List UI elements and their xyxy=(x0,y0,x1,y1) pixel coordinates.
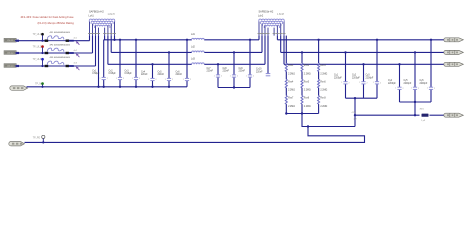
svg-text:Rxx1: Rxx1 xyxy=(288,65,294,67)
svg-text:Cy5: Cy5 xyxy=(404,80,409,82)
wire PE line (y115) xyxy=(354,114,420,116)
svg-text:Rxx5: Rxx5 xyxy=(304,81,310,83)
svg-text:2: 2 xyxy=(403,88,404,90)
resistor column 3 (R7-R9) xyxy=(318,40,328,114)
capacitor stub at choke2 N pin xyxy=(256,36,270,76)
net flag 4x1 xyxy=(74,38,80,45)
svg-text:Cx6: Cx6 xyxy=(176,71,181,73)
svg-text:Cx7: Cx7 xyxy=(207,68,212,70)
wire L1 input xyxy=(15,40,46,42)
svg-text:2.2MΩ: 2.2MΩ xyxy=(304,73,311,75)
svg-text:1: 1 xyxy=(230,75,231,77)
svg-text:2: 2 xyxy=(139,78,140,80)
svg-text:(F1-F3) 4Amps 250Vac Rating: (F1-F3) 4Amps 250Vac Rating xyxy=(38,21,75,25)
svg-text:1: 1 xyxy=(411,88,412,90)
wire L2 up into choke1 xyxy=(92,36,94,53)
connector CN L2 output xyxy=(444,50,464,54)
svg-text:1: 1 xyxy=(148,79,149,81)
svg-text:1: 1 xyxy=(341,82,342,84)
capacitor Cy6 2200pF xyxy=(420,39,436,102)
svg-text:TP_UL3: TP_UL3 xyxy=(33,59,42,61)
svg-text:Rxx4: Rxx4 xyxy=(288,81,294,83)
capacitor Cx3 0.68uF xyxy=(125,39,141,88)
svg-text:1: 1 xyxy=(165,79,166,81)
svg-text:Rxx6: Rxx6 xyxy=(320,81,326,83)
svg-text:1: 1 xyxy=(132,78,133,80)
svg-text:TP_PE: TP_PE xyxy=(33,137,41,139)
svg-text:220nF: 220nF xyxy=(158,74,165,76)
capacitor Cx1 0.68uF xyxy=(92,36,108,88)
common-mode choke Lch2 (SAFB01b-H2 1.8mH) xyxy=(258,11,286,36)
svg-text:Lch2: Lch2 xyxy=(258,14,264,17)
svg-text:Rxx7: Rxx7 xyxy=(288,98,294,100)
wire L2 fuse to choke xyxy=(69,52,93,54)
svg-text:2.2MΩ: 2.2MΩ xyxy=(288,90,295,92)
svg-text:Cx9: Cx9 xyxy=(239,68,244,70)
svg-text:1: 1 xyxy=(116,78,117,80)
capacitor Cy5 2200pF xyxy=(404,51,420,102)
svg-text:1: 1 xyxy=(395,88,396,90)
svg-text:Cy3: Cy3 xyxy=(366,75,371,77)
capacitor Cx4 220nF xyxy=(141,63,157,88)
svg-text:2.2MΩ: 2.2MΩ xyxy=(288,73,295,75)
svg-text:2: 2 xyxy=(190,79,191,81)
fuse F2 xyxy=(45,48,74,54)
svg-text:1.8mH: 1.8mH xyxy=(277,13,284,16)
fuse F2 label xyxy=(50,44,71,46)
wire choke2 out L3 down xyxy=(283,36,285,65)
connector CN PE output xyxy=(444,113,464,117)
svg-text:2: 2 xyxy=(253,76,254,78)
fuse F3 xyxy=(45,61,74,67)
svg-text:1: 1 xyxy=(246,75,247,77)
svg-text:2.2MΩ: 2.2MΩ xyxy=(320,90,327,92)
wire L3 input xyxy=(15,65,46,67)
svg-text:220nF: 220nF xyxy=(256,71,263,73)
junction resistor col3 top xyxy=(317,39,319,41)
wire bead to PE connector xyxy=(430,114,446,116)
svg-text:TP_N: TP_N xyxy=(35,84,41,86)
inductor Ld1 xyxy=(191,34,204,40)
svg-text:Cx5: Cx5 xyxy=(158,71,163,73)
bus L2 output xyxy=(281,51,446,53)
connector J4 (N input) xyxy=(10,86,28,90)
svg-text:1: 1 xyxy=(214,75,215,77)
note fuse holder rating (red annotation line 1) xyxy=(21,15,74,19)
wire resistor grid to PE staircase xyxy=(302,114,355,127)
svg-text:2: 2 xyxy=(380,82,381,84)
wire PE input staircase xyxy=(25,125,365,142)
wire cap groupB bottom bus xyxy=(400,101,432,103)
capacitor Cx2 0.68uF xyxy=(109,39,125,88)
test point TP_UL1 xyxy=(33,33,44,42)
svg-text:2: 2 xyxy=(434,88,435,90)
svg-text:0.68µF: 0.68µF xyxy=(109,73,117,75)
svg-text:Cx8: Cx8 xyxy=(223,68,228,70)
svg-text:TP_UL1: TP_UL1 xyxy=(33,34,42,36)
bus L1 output xyxy=(277,39,445,41)
svg-text:2: 2 xyxy=(221,76,222,78)
svg-text:4F3 04S6068500005: 4F3 04S6068500005 xyxy=(50,57,71,59)
test point TP_PE xyxy=(33,135,45,143)
svg-text:220nF: 220nF xyxy=(223,71,230,73)
svg-text:1: 1 xyxy=(373,82,374,84)
capacitor Cx9 220nF xyxy=(239,39,255,88)
svg-text:Cx2: Cx2 xyxy=(109,70,114,72)
ferrite bead FB1 xyxy=(420,108,429,122)
connector J3 (L3 input) xyxy=(4,64,19,68)
capacitor Cx6 220nF xyxy=(176,39,192,87)
svg-text:2200pF: 2200pF xyxy=(352,77,360,79)
svg-text:4F1-4F3: Fuse Holder for Fast: 4F1-4F3: Fuse Holder for Fast Acting Fus… xyxy=(21,15,74,19)
svg-text:2200pF: 2200pF xyxy=(420,83,428,85)
resistor column 1 (R1-R3) xyxy=(285,63,295,114)
svg-text:CN 4-2: CN 4-2 xyxy=(7,52,14,54)
wire resistor grid bottom bus xyxy=(285,112,319,114)
svg-text:2200pF: 2200pF xyxy=(404,83,412,85)
junction resistor col2 top xyxy=(301,51,303,53)
wire L3 up into choke1 xyxy=(95,36,97,66)
svg-text:220nF: 220nF xyxy=(239,71,246,73)
connector CN L1 output xyxy=(444,38,464,42)
svg-text:220nF: 220nF xyxy=(141,74,148,76)
svg-text:Cy2: Cy2 xyxy=(352,75,357,77)
svg-text:0.68µF: 0.68µF xyxy=(92,73,100,75)
svg-text:2: 2 xyxy=(107,78,108,80)
svg-text:Rxx9: Rxx9 xyxy=(320,98,326,100)
svg-text:4F2 04S6068500005: 4F2 04S6068500005 xyxy=(50,44,71,46)
svg-text:1.8mH: 1.8mH xyxy=(108,13,115,16)
svg-text:1 µF: 1 µF xyxy=(421,120,426,122)
fuse F1 label xyxy=(50,32,71,34)
svg-text:4W: 4W xyxy=(354,118,357,120)
svg-text:Cx4: Cx4 xyxy=(141,71,146,73)
svg-text:4F1 04S6068500005: 4F1 04S6068500005 xyxy=(50,32,71,34)
svg-text:1: 1 xyxy=(427,88,428,90)
svg-text:Rxx8: Rxx8 xyxy=(304,98,310,100)
svg-text:Cy6: Cy6 xyxy=(420,80,425,82)
test point TP_N xyxy=(35,82,44,88)
connector J2 (L2 input) xyxy=(4,51,19,55)
svg-text:Cy4: Cy4 xyxy=(388,80,393,82)
svg-text:TP_UL2: TP_UL2 xyxy=(33,47,42,49)
test point TP_UL2 xyxy=(33,45,44,54)
svg-text:2: 2 xyxy=(349,82,350,84)
svg-text:2: 2 xyxy=(156,79,157,81)
capacitor Cx7 220nF xyxy=(207,63,223,87)
svg-text:2200pF: 2200pF xyxy=(388,83,396,85)
net flag 4x3 xyxy=(74,63,80,71)
wire choke1 out L2 down xyxy=(110,36,112,53)
svg-text:220nF: 220nF xyxy=(207,71,214,73)
wire bus L1' up into choke2 xyxy=(258,36,260,40)
resistor column 2 (R4-R6) xyxy=(301,52,311,113)
svg-text:CN 4-1: CN 4-1 xyxy=(7,40,14,42)
svg-text:2.2MΩ: 2.2MΩ xyxy=(304,106,311,108)
svg-text:SAFB01b-H2: SAFB01b-H2 xyxy=(259,11,274,14)
svg-text:1: 1 xyxy=(100,78,101,80)
svg-text:2: 2 xyxy=(367,82,368,84)
svg-text:2.2MΩ: 2.2MΩ xyxy=(320,73,327,75)
wire L3 fuse to choke xyxy=(69,65,96,67)
fuse F3 label xyxy=(50,57,71,59)
svg-text:2: 2 xyxy=(418,88,419,90)
note fuse rating (red annotation line 2) xyxy=(38,21,75,25)
svg-text:2200pF: 2200pF xyxy=(366,77,374,79)
svg-text:2: 2 xyxy=(123,78,124,80)
capacitor Cx8 220nF xyxy=(223,51,239,87)
connector J5 (PE input) xyxy=(9,142,25,146)
bus L3' (y64.3) xyxy=(108,63,265,65)
wire cap groupA to PE xyxy=(354,97,356,127)
svg-text:2.2MΩ: 2.2MΩ xyxy=(288,106,295,108)
svg-text:SAFB01b-H2: SAFB01b-H2 xyxy=(89,11,104,14)
svg-text:Cx1: Cx1 xyxy=(92,70,97,72)
bus L2' (y52.5) xyxy=(111,51,262,53)
svg-text:Rxx3: Rxx3 xyxy=(320,65,326,67)
svg-text:220nF: 220nF xyxy=(176,74,183,76)
svg-text:1: 1 xyxy=(183,79,184,81)
svg-text:2200pF: 2200pF xyxy=(334,77,342,79)
bus L1' (y40) xyxy=(104,39,259,41)
bus N (y87) xyxy=(27,86,188,88)
wire cap group3 bottom bus xyxy=(218,86,250,88)
capacitor Cy2 2200pF xyxy=(352,63,368,98)
svg-text:Lch1: Lch1 xyxy=(89,14,95,17)
svg-text:4 PE: 4 PE xyxy=(352,112,357,114)
net flag 4x2 xyxy=(74,50,80,57)
connector CN L3 output xyxy=(444,62,464,66)
bus L3 output xyxy=(284,63,446,65)
inductor Ld3 xyxy=(191,59,204,65)
wire choke1 out L3 down xyxy=(107,36,109,65)
wire cap groupB to PE xyxy=(414,101,416,117)
wire choke2 out L2 down xyxy=(280,36,282,53)
wire cap groupA bottom bus xyxy=(346,97,378,99)
svg-text:Cx10: Cx10 xyxy=(256,69,262,71)
wire choke2 N down to resistor column R1 xyxy=(285,36,287,63)
svg-text:Cy1: Cy1 xyxy=(334,75,339,77)
common-mode choke Lch1 (SAFB01b-H2 1.8mH) xyxy=(88,11,116,36)
wire bus L3' up into choke2 xyxy=(264,36,266,65)
wire choke1 out L1 down xyxy=(113,36,115,41)
wire bus L2' up into choke2 xyxy=(261,36,263,53)
wire L2 input xyxy=(15,52,46,54)
test point TP_UL3 xyxy=(33,58,44,67)
fuse F1 xyxy=(45,36,74,42)
capacitor Cy1 2200pF xyxy=(334,51,350,98)
svg-text:2: 2 xyxy=(237,76,238,78)
wire N up into choke1 xyxy=(97,36,99,88)
connector J1 (L1 input) xyxy=(4,38,19,42)
svg-text:2: 2 xyxy=(172,79,173,81)
svg-text:1: 1 xyxy=(359,82,360,84)
svg-text:CN 4-3: CN 4-3 xyxy=(7,65,14,67)
svg-text:2.2MΩ: 2.2MΩ xyxy=(320,106,327,108)
svg-text:2.2MΩ: 2.2MΩ xyxy=(304,90,311,92)
svg-text:Cx3: Cx3 xyxy=(125,70,130,72)
net label PE upper xyxy=(352,112,357,114)
wire choke2 out L1 down xyxy=(276,36,278,40)
wire L1 up into choke1 xyxy=(89,36,91,41)
net label PE lower xyxy=(354,118,357,120)
svg-text:0.68µF: 0.68µF xyxy=(125,73,133,75)
inductor Ld2 xyxy=(191,47,204,53)
svg-text:Rxx2: Rxx2 xyxy=(304,65,310,67)
capacitor Cy4 2200pF xyxy=(388,63,404,102)
capacitor Cx5 220nF xyxy=(158,51,174,88)
wire L1 fuse to choke xyxy=(69,40,90,42)
capacitor Cy3 2200pF xyxy=(366,39,382,99)
